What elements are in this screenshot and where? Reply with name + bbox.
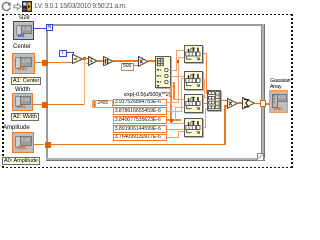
build array node [207, 90, 221, 111]
constant 3.917526884783E-6 [113, 99, 167, 107]
iteration terminal i [59, 50, 67, 57]
wire constant1 to node A [167, 102, 179, 103]
constant 3.764099130917E-6 [113, 134, 167, 142]
replace array subset node D [184, 118, 203, 137]
output tunnel [260, 100, 266, 106]
Amplitude control [3, 125, 30, 131]
wire tunnel -> indicator [266, 103, 270, 105]
subtract node [72, 54, 83, 64]
replace array subset node A [184, 45, 203, 63]
wire multiply1 -> index array [148, 60, 155, 61]
wire constant2 to node B [167, 111, 181, 112]
sum node [242, 97, 255, 110]
riser amplitude up to multiply2 [224, 105, 225, 145]
constant 500 [121, 63, 134, 71]
riser up to divide [84, 60, 85, 105]
square node [103, 56, 114, 67]
wire Center -> tunnel -> subtract [35, 62, 72, 63]
wire divide -> square [97, 60, 104, 61]
wire constant5 to node D [167, 137, 179, 138]
icon: hollow right arrow [13, 2, 22, 11]
wire amplitude long run [50, 144, 226, 145]
multiply1 node [138, 56, 149, 67]
wire index out3 to node C [171, 82, 174, 83]
tunnel (Center) [42, 60, 48, 66]
coercion dot [72, 55, 75, 57]
header text [35, 3, 127, 11]
Center control [13, 44, 31, 50]
tunnel (Amplitude) [45, 142, 52, 149]
stub into divide lower input [84, 63, 88, 64]
wire Width -> tunnel [33, 104, 48, 105]
tunnel (Width) [42, 102, 48, 108]
wire subtract -> divide [82, 58, 89, 59]
junction dot on constant3 stub [170, 119, 173, 122]
wire node D to build array in4 [203, 127, 206, 128]
stub 500 -> multiply1 [134, 65, 138, 66]
loop resize corner glyph [257, 153, 265, 161]
junction dot [83, 57, 85, 59]
loop count terminal N [46, 24, 54, 32]
wire multiply2 -> sum [238, 102, 242, 103]
dashed snippet border [2, 14, 292, 16]
junction dot on node-A riser [177, 60, 180, 63]
multiply2 node [227, 98, 238, 109]
wire constant4 to node D [167, 129, 185, 130]
constant 3.878616655459E-6 [113, 107, 167, 115]
icon: circular drag arrow [1, 1, 12, 12]
wire build array -> multiply2 [221, 100, 227, 101]
wire node A to build array in1 [203, 53, 207, 54]
Gaussian Array indicator [270, 78, 290, 84]
constant 0.2495 [92, 100, 113, 108]
icon: LabVIEW logo [22, 1, 32, 12]
wire index out1 to node A [171, 70, 177, 71]
divide node [88, 56, 98, 66]
wire node C to build array in3 [203, 103, 208, 104]
wire constant3 to node C [167, 119, 181, 120]
replace array subset node C [184, 94, 203, 113]
size control terminal [19, 15, 30, 21]
wire Amplitude -> tunnel [34, 144, 44, 145]
index array node [155, 56, 171, 88]
replace array subset node B [184, 71, 203, 90]
constant 3.840077535623E-6 [113, 116, 167, 124]
wire tunnel -> riser corner [48, 104, 85, 105]
wire square -> multiply1 [113, 60, 138, 61]
wire i -> subtract [67, 52, 75, 53]
Width control [15, 87, 30, 93]
wire node B to build array in2 [203, 79, 205, 80]
wire index out2 to node B [171, 76, 184, 77]
for loop border [46, 24, 265, 26]
wire sum -> tunnel [254, 103, 260, 104]
wire size -> N [34, 28, 46, 29]
constant 3.801906144599E-6 [113, 125, 167, 133]
formula label [124, 92, 170, 98]
